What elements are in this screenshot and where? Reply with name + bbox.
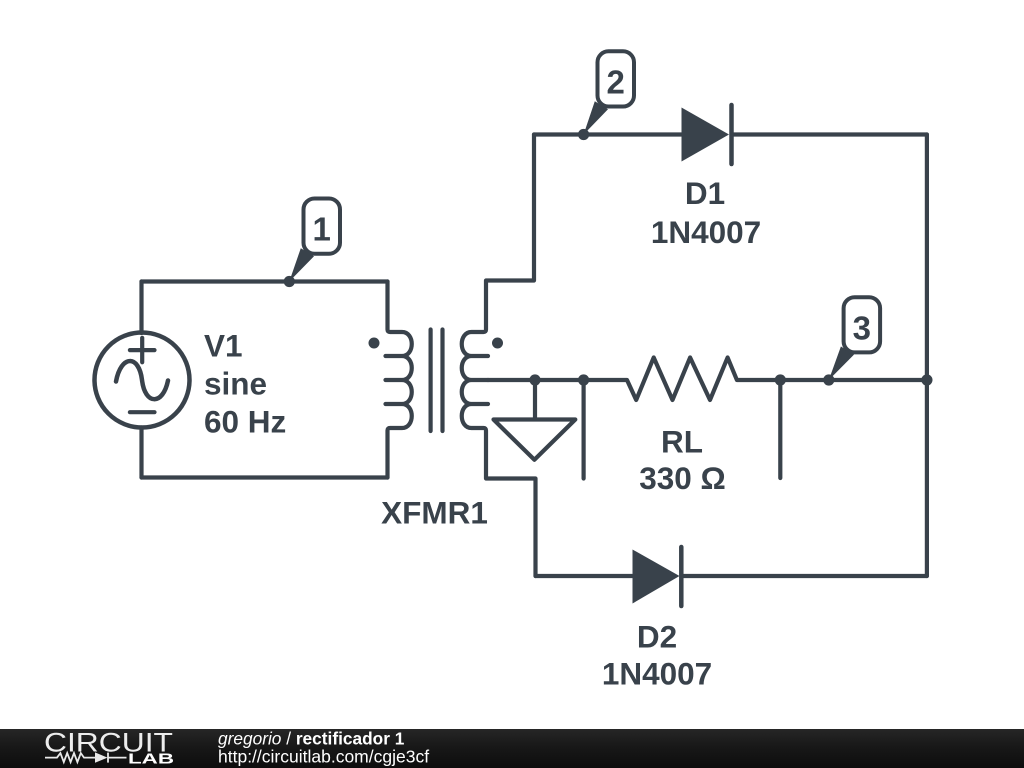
wire: V1 loop bottom (142, 475, 388, 479)
svg-text:RL: RL (661, 424, 703, 460)
node label 2 pointer wedge (584, 101, 608, 134)
junction dot node 3 (823, 374, 834, 385)
voltage source V1 sine symbol (116, 361, 168, 399)
svg-text:1N4007: 1N4007 (651, 214, 761, 250)
svg-text:http://circuitlab.com/cgje3cf: http://circuitlab.com/cgje3cf (218, 747, 429, 767)
wire: top net from node 2 to D1 anode (534, 132, 682, 136)
transformer XFMR1 secondary winding with top lead to node 2 and bottom lead (462, 135, 536, 577)
wire: V1 loop left lower (139, 428, 143, 478)
wire: V1 loop top (node 1 net) (142, 279, 388, 283)
svg-text:sine: sine (204, 366, 267, 402)
logo diode triangle (95, 752, 108, 762)
svg-text:XFMR1: XFMR1 (381, 495, 488, 531)
junction dot RL right (775, 374, 786, 385)
wire: D1 cathode to top-right corner (732, 132, 927, 136)
wire: D2 cathode to bottom-right corner (682, 574, 927, 578)
footer bar (0, 727, 1024, 768)
svg-text:60 Hz: 60 Hz (204, 404, 286, 440)
wire: stub below junction at x780 (778, 380, 782, 478)
node label 1 pointer wedge (289, 248, 314, 281)
diode D1 cathode bar (729, 105, 734, 164)
ground symbol triangle (494, 420, 576, 460)
transformer XFMR1 primary winding (386, 282, 412, 478)
svg-text:330 Ω: 330 Ω (639, 460, 726, 496)
svg-text:gregorio / rectificador 1: gregorio / rectificador 1 (218, 729, 405, 749)
wire: right vertical (D1/D2 cathode net) (925, 135, 929, 577)
svg-text:1: 1 (313, 211, 331, 248)
diode D1 triangle (682, 108, 730, 162)
voltage source V1 plus sign (130, 338, 155, 363)
junction dot RL left (578, 374, 589, 385)
diode D2 cathode bar (679, 547, 684, 606)
wire: bottom net from transformer to D2 anode (536, 574, 633, 578)
junction dot right vertical (921, 374, 932, 385)
svg-text:D2: D2 (637, 619, 677, 655)
svg-text:3: 3 (853, 309, 871, 346)
junction dot node 2 (578, 129, 589, 140)
wire: stub below junction at x584 (581, 380, 585, 479)
transformer secondary phase dot (492, 338, 503, 349)
node label 3 box (844, 297, 881, 352)
wire: center tap net with resistor RL zigzag (488, 358, 927, 401)
node label 3 pointer wedge (829, 347, 854, 381)
svg-text:V1: V1 (204, 328, 243, 364)
junction dot center tap at ground (529, 374, 540, 385)
svg-text:2: 2 (607, 64, 625, 101)
transformer XFMR1 core line left (429, 330, 433, 432)
ground symbol stub (533, 380, 537, 418)
voltage source V1 circle (95, 333, 190, 428)
svg-text:LAB: LAB (128, 750, 174, 767)
node label 1 box (304, 199, 341, 254)
wire: V1 loop left upper (139, 282, 143, 334)
logo resistor-diode glyph (45, 753, 127, 763)
diode D2 triangle (633, 550, 680, 604)
node label 2 box (598, 51, 635, 106)
voltage source V1 minus sign (130, 410, 155, 414)
svg-text:D1: D1 (685, 175, 725, 211)
transformer XFMR1 core line right (440, 330, 444, 432)
junction dot node 1 (284, 276, 295, 287)
transformer primary phase dot (369, 338, 380, 349)
svg-text:1N4007: 1N4007 (602, 656, 712, 692)
